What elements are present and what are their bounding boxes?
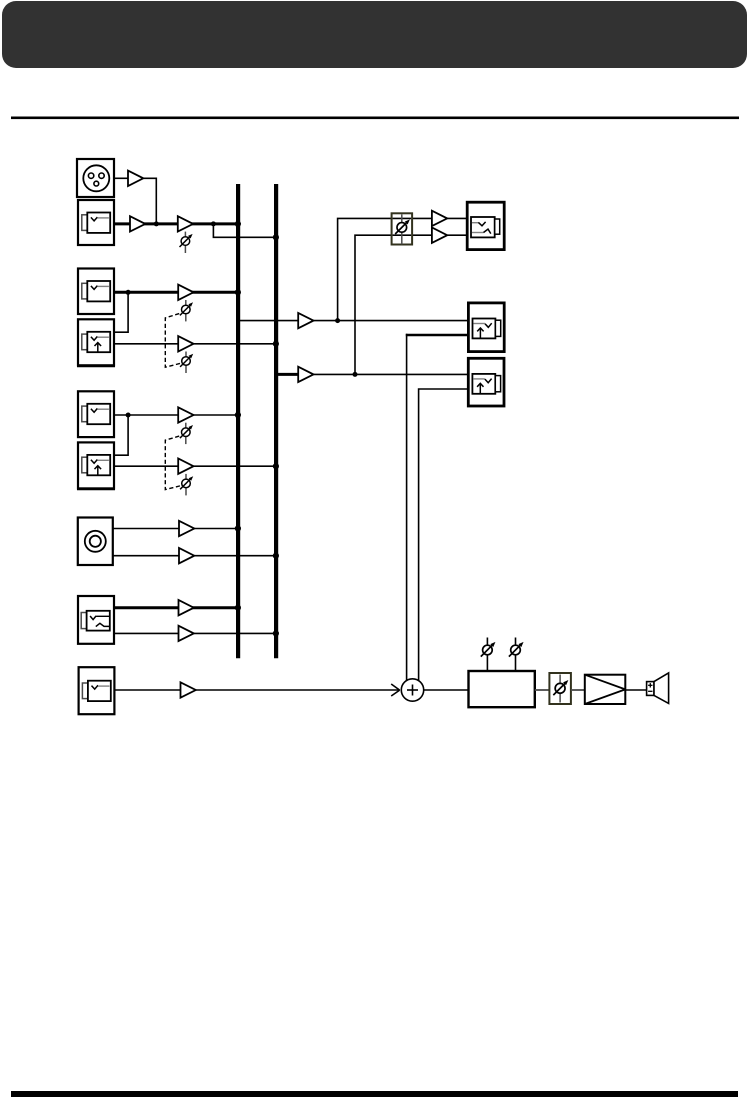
junction ch2 bus L — [235, 289, 241, 295]
line out L box — [468, 303, 504, 352]
summing node — [401, 679, 423, 701]
wire rec stub L (thick) — [406, 334, 469, 337]
wire aux input to sum — [114, 689, 398, 691]
junction ch1 bus R — [273, 234, 279, 240]
input box ch2 R — [77, 319, 115, 366]
header title bar — [2, 1, 747, 68]
headphone level pot box — [392, 213, 413, 244]
wire ch2 R — [114, 343, 276, 345]
amp A6 — [178, 407, 193, 422]
junction hp tap R — [353, 372, 358, 377]
header rule — [11, 117, 739, 120]
master block — [469, 671, 535, 707]
bus bar R — [274, 184, 278, 658]
amp A7 — [178, 459, 193, 474]
amp A11 — [179, 626, 194, 641]
amp A14 main R — [298, 367, 313, 382]
amp A15 hp L — [432, 211, 447, 226]
junction ch3 bus R — [273, 463, 279, 469]
junction ch5 bus L — [235, 605, 241, 611]
pot P3 — [180, 352, 193, 374]
junction ch1 bus L — [235, 221, 241, 227]
junction ch3 bus L — [235, 412, 241, 418]
pot P1 — [180, 232, 193, 253]
amp A12 — [181, 682, 196, 697]
speaker — [647, 673, 669, 704]
pot P2 — [180, 300, 193, 321]
footer bar — [11, 1091, 738, 1097]
junction hp tap L — [335, 318, 340, 323]
wire ch5 L (thick) — [114, 606, 238, 609]
amp A9 — [179, 548, 194, 563]
wire headphone tap R — [355, 235, 392, 374]
master pot stem 2 — [509, 638, 524, 672]
wire amp to tape line — [143, 178, 156, 224]
input box ch3 R — [77, 442, 115, 489]
wire ch3 R — [114, 465, 276, 467]
tape input box — [78, 200, 114, 245]
input box ch3 L — [78, 391, 114, 437]
dashed gang link ch3 — [165, 436, 181, 490]
junction ch4 bus L — [235, 525, 241, 531]
wire ch2 L (thick) — [114, 291, 238, 294]
headphone out box — [467, 202, 504, 249]
pot P4 — [180, 423, 193, 444]
junction ch5 bus R — [273, 630, 279, 636]
aux input box ch6 — [79, 667, 115, 714]
dashed gang link ch2 — [165, 314, 181, 368]
junction ch1-b — [211, 221, 216, 226]
amp A2 — [130, 216, 145, 231]
wire tape out (thick) — [114, 222, 238, 225]
wire rec stub R — [419, 389, 469, 681]
mic input box X1 — [77, 159, 114, 197]
pot P5 — [180, 474, 193, 496]
amp A5 — [178, 336, 193, 351]
input box ch2 L — [78, 269, 114, 315]
power amp box — [585, 675, 626, 704]
volume pot box — [549, 673, 571, 704]
junction ch3 split — [126, 413, 131, 418]
bus bar L — [236, 184, 240, 658]
amp A8 — [179, 521, 194, 536]
amp A3 — [178, 216, 193, 231]
wire rec drop L — [406, 334, 408, 681]
wire amps to hp box — [447, 217, 467, 219]
wire ch5 R — [114, 632, 276, 634]
wire pot box to amps — [412, 217, 432, 219]
amp A4 — [178, 285, 193, 300]
amp A10 — [179, 600, 194, 615]
master pot stem 1 — [481, 638, 496, 672]
input box ch5 — [78, 596, 114, 644]
wire amp to speaker — [625, 689, 646, 691]
wire branch to R bus — [213, 224, 276, 237]
junction ch2 bus R — [273, 341, 279, 347]
input box ch4 — [78, 518, 113, 566]
wire amp to out R — [314, 373, 469, 375]
line out R box — [468, 358, 504, 406]
amp A16 hp R — [432, 228, 447, 243]
arrow into sum — [391, 684, 400, 696]
wire bus L to out L — [238, 320, 469, 322]
amp A1 — [128, 171, 143, 186]
wire ch2 normalling drop — [114, 292, 128, 332]
wire ch3 normalling drop — [114, 415, 128, 455]
wire ch3 L — [114, 414, 238, 416]
wire pot to power amp — [571, 689, 585, 691]
wire ch4 L — [113, 528, 238, 530]
wire master to volume pot — [535, 689, 550, 691]
wire mic to amp — [114, 177, 128, 179]
junction ch2 split — [126, 290, 131, 295]
wire headphone tap L — [338, 218, 392, 320]
junction ch1-a — [154, 221, 159, 226]
junction ch4 bus R — [273, 553, 279, 559]
wire ch4 R — [113, 555, 276, 557]
amp A13 main L — [298, 313, 313, 328]
wire bus R to amp (thick) — [276, 373, 298, 376]
wire sum to master box — [424, 689, 469, 691]
